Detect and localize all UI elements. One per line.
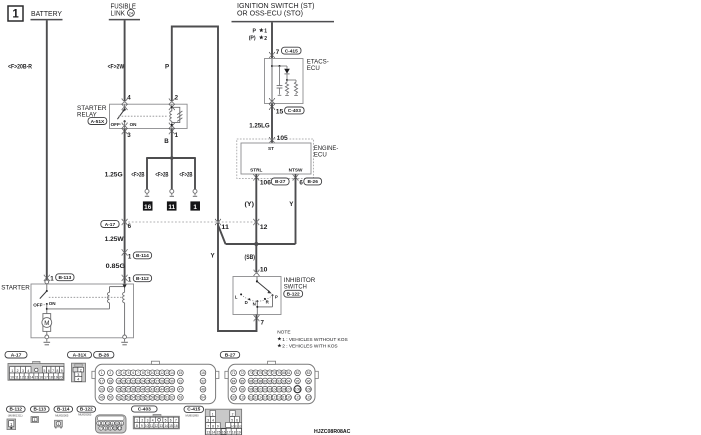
connector A-17 body (8, 361, 64, 380)
svg-text:20: 20 (59, 375, 63, 379)
svg-text:6: 6 (132, 371, 134, 375)
svg-text:4: 4 (27, 369, 29, 373)
svg-text:15: 15 (169, 424, 173, 428)
connector B-27 pins row 2 (231, 378, 312, 384)
connector B-113 body (31, 417, 39, 423)
svg-text:17: 17 (44, 375, 48, 379)
connector B-112 tag (7, 406, 26, 412)
starter ground terminal left (44, 335, 51, 345)
svg-text:32: 32 (201, 379, 205, 383)
wire label (SB) (245, 254, 256, 261)
svg-text:92: 92 (277, 379, 281, 383)
svg-text:FUSIBLE: FUSIBLE (111, 3, 137, 10)
svg-text:NOTE: NOTE (277, 329, 290, 335)
svg-text:7: 7 (100, 427, 102, 431)
svg-text:18: 18 (49, 375, 53, 379)
svg-text:C-415: C-415 (285, 48, 298, 54)
svg-text:7: 7 (137, 371, 139, 375)
inhibitor position labels (235, 294, 278, 306)
connector B-112 part number (8, 414, 23, 418)
svg-text:27: 27 (155, 379, 159, 383)
svg-text:2: 2 (102, 422, 104, 426)
svg-text:OFF: OFF (33, 303, 42, 308)
svg-text:3: 3 (147, 419, 149, 423)
svg-text:B-113: B-113 (58, 275, 71, 281)
connector C-415 pins row 1 (210, 410, 235, 416)
svg-text:120: 120 (286, 396, 292, 400)
svg-text:2: 2 (232, 412, 234, 416)
svg-text:64: 64 (201, 396, 205, 400)
svg-text:<F>2W: <F>2W (108, 63, 125, 70)
ground reference box 1 (190, 201, 200, 211)
svg-text:15: 15 (276, 109, 284, 116)
wire ignition switch to ETACS pin 7 (271, 22, 273, 58)
relay pin 3 label (127, 132, 131, 139)
svg-text:33: 33 (100, 388, 104, 392)
svg-text:49: 49 (100, 396, 104, 400)
svg-text:9: 9 (147, 371, 149, 375)
svg-text:47: 47 (179, 388, 183, 392)
wire label P star1 (253, 28, 268, 35)
wire label F 2B left (131, 171, 144, 178)
wire STRL to inhibitor switch (255, 174, 257, 273)
svg-text:12: 12 (20, 375, 24, 379)
svg-text:6: 6 (170, 419, 172, 423)
wire NTSW down (295, 174, 297, 244)
svg-text:B-26: B-26 (307, 179, 318, 185)
svg-text:19: 19 (54, 375, 58, 379)
connector A-17 tag (5, 352, 27, 359)
relay pin 1 connector marks (169, 123, 175, 135)
svg-text:7: 7 (261, 319, 265, 326)
svg-text:61: 61 (165, 396, 169, 400)
svg-text:34: 34 (108, 388, 112, 392)
svg-text:37: 37 (127, 388, 131, 392)
node 6 connector mark A-17 (122, 219, 128, 226)
svg-text:1: 1 (12, 9, 19, 21)
connector C-403 tag (132, 406, 158, 413)
pin 106 label and connector B-27 tag (260, 178, 289, 186)
pin 7 label and connector C-415 tag (276, 47, 301, 56)
connector B-26 pins row 3 (99, 386, 206, 392)
svg-text:MU801890: MU801890 (186, 414, 200, 418)
svg-text:6: 6 (128, 223, 132, 230)
svg-text:5: 5 (231, 418, 233, 422)
svg-text:ST: ST (268, 146, 274, 151)
svg-text:4: 4 (152, 419, 154, 423)
starter pull-in coil (108, 292, 110, 303)
wire node 11 diagonal to joint (218, 225, 226, 244)
starter ground terminal right (121, 335, 128, 345)
svg-text:9: 9 (109, 427, 111, 431)
svg-text:B-27: B-27 (275, 179, 286, 185)
relay switch contact (117, 105, 125, 129)
svg-text:82: 82 (296, 371, 300, 375)
ground wire right (194, 158, 196, 189)
wire label F 2B right (179, 171, 192, 178)
connector B-122 body (96, 415, 127, 433)
svg-text:9: 9 (141, 424, 143, 428)
svg-text:14: 14 (164, 424, 168, 428)
battery bus bar (31, 19, 63, 21)
svg-text:BATTERY: BATTERY (31, 11, 62, 18)
pin 6 label and connector B-26 tag (299, 178, 321, 186)
connector C-415 pins row 2 (206, 417, 240, 423)
svg-text:16: 16 (174, 424, 178, 428)
svg-text:13: 13 (159, 424, 163, 428)
ground terminal 16 (145, 189, 149, 196)
svg-text:2: 2 (141, 419, 143, 423)
ground wire left (146, 158, 148, 189)
connector B-27 pins row 3 (231, 386, 312, 393)
svg-text:19: 19 (237, 431, 241, 435)
node 11 connector mark (215, 219, 221, 226)
relay coil (170, 105, 173, 129)
svg-text:A-31X: A-31X (73, 352, 88, 358)
harness dashed line (125, 221, 257, 223)
relay pin 1 label (175, 132, 179, 139)
svg-text:43: 43 (155, 388, 159, 392)
svg-text:21: 21 (127, 379, 131, 383)
svg-text:8: 8 (136, 424, 138, 428)
connector B-122 pins row 2 (99, 426, 122, 431)
ETACS capacitor (277, 65, 283, 95)
connector mark B-112 inline (122, 275, 128, 282)
ETACS internal wire (271, 59, 273, 104)
svg-text:<F>2B: <F>2B (179, 171, 192, 178)
svg-text:1: 1 (136, 419, 138, 423)
diagram reference code (314, 429, 351, 435)
starter motor to ground wire (46, 331, 48, 336)
svg-text:41: 41 (146, 388, 150, 392)
svg-text:36: 36 (122, 388, 126, 392)
wire label (Y) (245, 201, 255, 208)
ground terminal 1 (193, 189, 197, 196)
ground wire middle (171, 158, 173, 189)
svg-text:63: 63 (179, 396, 183, 400)
connector B-122 pins row 1 (97, 421, 124, 426)
starter box (31, 284, 134, 338)
svg-text:1: 1 (128, 276, 132, 283)
wire label P (165, 63, 169, 70)
svg-text:7: 7 (276, 49, 280, 56)
ENGINE-ECU pin name NTSW (289, 168, 303, 173)
svg-text:STRL: STRL (250, 168, 262, 173)
svg-text:16: 16 (201, 371, 205, 375)
svg-text:OR OSS-ECU (STO): OR OSS-ECU (STO) (237, 10, 303, 17)
ignition switch bus bar (232, 21, 335, 23)
svg-text:38: 38 (131, 388, 135, 392)
svg-text:1: 1 (212, 412, 214, 416)
svg-text:13: 13 (207, 431, 211, 435)
svg-text:14: 14 (30, 375, 34, 379)
svg-text:D: D (245, 300, 248, 305)
STRL pin 106 connector mark (253, 174, 259, 181)
starter hold-in coil (123, 288, 125, 335)
inhibitor switch rotor arm (256, 277, 272, 294)
svg-text:18: 18 (232, 431, 236, 435)
svg-text:ON: ON (130, 122, 138, 127)
svg-text:1: 1 (34, 418, 36, 422)
svg-text:40: 40 (141, 388, 145, 392)
svg-text:(MU801311): (MU801311) (8, 414, 23, 418)
svg-text:15: 15 (217, 431, 221, 435)
ground reference box 11 (167, 201, 177, 211)
ENGINE-ECU dashed outline (237, 139, 314, 179)
svg-text:56: 56 (141, 396, 145, 400)
svg-text:10: 10 (113, 427, 117, 431)
svg-text:B-122: B-122 (80, 407, 93, 412)
node 11 label (221, 224, 229, 231)
svg-text:48: 48 (201, 388, 205, 392)
svg-text:3: 3 (118, 371, 120, 375)
svg-text:3: 3 (127, 132, 131, 139)
relay pin 4 connector marks (122, 98, 128, 110)
svg-text:P: P (165, 63, 169, 70)
svg-text:13: 13 (165, 371, 169, 375)
svg-text:107: 107 (286, 388, 292, 392)
svg-text:1: 1 (57, 422, 59, 426)
svg-text:11: 11 (150, 424, 154, 428)
svg-text:A-17: A-17 (11, 352, 22, 358)
svg-text:12: 12 (160, 371, 164, 375)
svg-text:87: 87 (254, 379, 258, 383)
svg-text:20: 20 (122, 379, 126, 383)
svg-text:45: 45 (165, 388, 169, 392)
svg-text:4: 4 (212, 418, 214, 422)
svg-text:11: 11 (156, 371, 160, 375)
battery label (31, 11, 62, 18)
relay OFF ON labels (111, 122, 138, 127)
ground terminal 11 (170, 189, 174, 196)
connector tag A-17 inline (101, 221, 132, 230)
starter relay name label (77, 105, 107, 119)
svg-text:4: 4 (123, 371, 125, 375)
svg-text:72: 72 (240, 371, 244, 375)
inhibitor switch terminals L D N R P (240, 293, 273, 302)
connector mark B-113 inline (44, 275, 50, 282)
wire ETACS to ENGINE-ECU (271, 104, 273, 144)
relay A-51X box (110, 104, 188, 128)
svg-text:12: 12 (118, 427, 122, 431)
ENGINE-ECU pin name ST (268, 146, 274, 151)
svg-text:B-26: B-26 (98, 352, 109, 358)
svg-text:OFF: OFF (111, 122, 120, 127)
starter solenoid circuit (46, 287, 125, 310)
wire inhibitor pin 7 to node 11 Y (218, 223, 257, 331)
svg-text:4: 4 (112, 422, 114, 426)
connector B-26 pins row 4 (99, 395, 206, 401)
connector A-31X tag (68, 352, 92, 359)
connector C-403 body (133, 414, 179, 428)
wire label Y right (289, 201, 294, 208)
svg-text:B-112: B-112 (10, 407, 23, 412)
svg-text:N: N (253, 302, 256, 307)
svg-text:97: 97 (232, 388, 236, 392)
svg-text:73: 73 (249, 371, 253, 375)
inhibitor switch selector track (241, 294, 272, 301)
starter relay tag A-51X (88, 118, 107, 125)
svg-text:22: 22 (131, 379, 135, 383)
wire label B (164, 138, 169, 145)
svg-text:2: 2 (80, 368, 82, 372)
svg-text:1.25G: 1.25G (105, 171, 123, 178)
connector tag B-114 inline (128, 252, 152, 261)
connector B-27 pins row 4 (231, 395, 312, 401)
svg-text:2: 2 (264, 36, 267, 42)
svg-text:16: 16 (39, 375, 43, 379)
svg-text:5: 5 (44, 369, 46, 373)
wire label F 20B-R (8, 63, 32, 70)
svg-text:44: 44 (160, 388, 164, 392)
svg-text:SWITCH: SWITCH (284, 284, 307, 291)
svg-text:51: 51 (117, 396, 121, 400)
svg-text:59: 59 (155, 396, 159, 400)
connector C-415 body (205, 409, 241, 435)
wire label F 2B middle (155, 171, 168, 178)
svg-text:6: 6 (299, 179, 303, 186)
svg-text:B-113: B-113 (34, 407, 47, 412)
connector C-415 tag (184, 406, 204, 413)
svg-text:1: 1 (193, 204, 197, 211)
connector B-26 pins row 2 (99, 378, 206, 384)
svg-text:1: 1 (98, 422, 100, 426)
inhibitor switch box (233, 277, 281, 315)
svg-text:11: 11 (221, 224, 229, 231)
svg-text:90: 90 (268, 379, 272, 383)
svg-text:3: 3 (107, 422, 109, 426)
svg-text:8: 8 (142, 371, 144, 375)
svg-text:7: 7 (52, 369, 54, 373)
svg-text:B-114: B-114 (136, 253, 149, 259)
connector C-403 pins row 2 (135, 423, 179, 429)
svg-text:17: 17 (100, 379, 104, 383)
svg-text:STARTER: STARTER (1, 285, 30, 292)
svg-text:2: 2 (17, 369, 19, 373)
wire fusible link to relay pin 4 (124, 20, 126, 101)
svg-text:11: 11 (15, 375, 19, 379)
svg-text:C-403: C-403 (288, 108, 301, 114)
svg-text:23: 23 (136, 379, 140, 383)
svg-text:58: 58 (151, 396, 155, 400)
svg-text:50: 50 (108, 396, 112, 400)
svg-text:85: 85 (240, 379, 244, 383)
svg-text:7: 7 (207, 424, 209, 428)
svg-text:<F>20B-R: <F>20B-R (8, 63, 32, 70)
starter name label (1, 285, 30, 292)
pin 7 connector mark and label (253, 315, 264, 327)
svg-text:2: 2 (175, 95, 179, 102)
connector mark pin 7 C-415 (269, 52, 275, 59)
svg-text:LINK: LINK (111, 11, 126, 18)
ground branch bus (146, 157, 196, 159)
svg-text:C-415: C-415 (187, 407, 200, 413)
svg-text:6: 6 (48, 369, 50, 373)
svg-text:10: 10 (260, 266, 268, 273)
svg-text:B-122: B-122 (287, 292, 300, 298)
svg-text:81: 81 (287, 371, 291, 375)
relay coil resistor branch (172, 107, 183, 122)
connector B-27 tag (220, 352, 239, 359)
svg-text:12: 12 (155, 424, 159, 428)
connector C-415 pins row 4 (206, 429, 242, 435)
svg-text:8: 8 (56, 369, 58, 373)
svg-text:15: 15 (34, 375, 38, 379)
pin 15 label and connector C-403 tag (276, 107, 304, 116)
svg-text:60: 60 (160, 396, 164, 400)
svg-text:1.25LG: 1.25LG (249, 122, 270, 129)
svg-text:4: 4 (77, 378, 79, 382)
svg-text:4: 4 (127, 95, 131, 102)
svg-text:B: B (164, 138, 169, 145)
svg-text:80: 80 (282, 371, 286, 375)
connector A-31X pins (73, 367, 84, 381)
svg-text:24: 24 (129, 11, 134, 16)
relay mechanical link dashed (119, 115, 168, 117)
svg-text:<F>2B: <F>2B (155, 171, 168, 178)
svg-text:14: 14 (212, 431, 216, 435)
svg-text:57: 57 (146, 396, 150, 400)
ground reference box 16 (143, 201, 153, 211)
svg-text:M: M (44, 320, 49, 327)
svg-text:19: 19 (117, 379, 121, 383)
svg-text:A-17: A-17 (105, 222, 116, 228)
svg-text:42: 42 (151, 388, 155, 392)
connector B-114 tag (54, 406, 73, 412)
svg-text:3: 3 (77, 373, 79, 377)
svg-text:76: 76 (263, 371, 267, 375)
wire relay pin 1 to ground junction (171, 129, 173, 159)
svg-text:10: 10 (10, 375, 14, 379)
svg-text:2 : VEHICLES WITH KOS: 2 : VEHICLES WITH KOS (282, 344, 337, 350)
svg-text:8: 8 (105, 427, 107, 431)
connector B-114 part number (55, 414, 69, 418)
svg-text:3: 3 (207, 418, 209, 422)
svg-text:MU803055: MU803055 (78, 412, 92, 416)
ENGINE-ECU box (241, 143, 311, 174)
svg-text:91: 91 (273, 379, 277, 383)
svg-text:P: P (275, 294, 278, 299)
ETACS resistor right (294, 80, 298, 96)
svg-text:7: 7 (175, 419, 177, 423)
svg-text:93: 93 (282, 379, 286, 383)
svg-text:53: 53 (127, 396, 131, 400)
svg-text:74: 74 (254, 371, 258, 375)
pin 105 label (277, 135, 289, 142)
svg-text:55: 55 (136, 396, 140, 400)
svg-text:ECU: ECU (307, 65, 320, 72)
starter entry arrow (123, 284, 127, 288)
svg-text:ECU: ECU (314, 152, 327, 159)
joint junction dot (254, 242, 258, 246)
svg-text:<F>2B: <F>2B (131, 171, 144, 178)
pin 105 connector mark (269, 137, 275, 144)
svg-text:1: 1 (101, 371, 103, 375)
svg-text:25: 25 (146, 379, 150, 383)
connector mark B-114 inline (122, 249, 128, 256)
svg-text:71: 71 (232, 371, 236, 375)
svg-text:77: 77 (268, 371, 272, 375)
svg-text:B-114: B-114 (57, 407, 70, 412)
wire label 1.25W (105, 236, 124, 243)
connector B-122 tag (77, 406, 96, 412)
svg-text:96: 96 (307, 379, 311, 383)
svg-text:HJZC08R08AC: HJZC08R08AC (314, 429, 351, 435)
connector A-17 pins row 1 (10, 367, 64, 373)
wire battery to starter (46, 20, 48, 280)
wire label 0.85G (106, 263, 126, 270)
starter switch (40, 284, 48, 314)
